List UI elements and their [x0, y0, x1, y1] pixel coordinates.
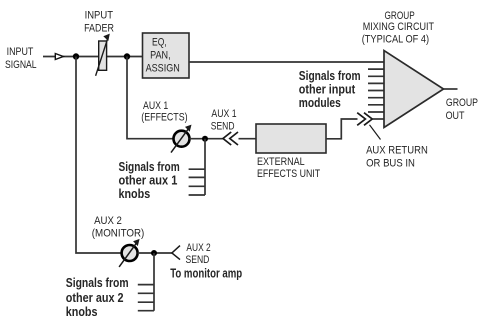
wire: effects unit to aux return [326, 119, 358, 139]
wire: EQ block to group mixer [189, 61, 384, 63]
svg-text:knobs: knobs [66, 304, 98, 319]
svg-text:INPUT: INPUT [85, 9, 114, 21]
aux1 send double chevron arrow [223, 132, 238, 145]
node: fader output junction B [124, 53, 130, 59]
wire: aux return into mixer [373, 118, 385, 120]
node: aux1 send junction [202, 136, 208, 142]
svg-text:AUX 1: AUX 1 [211, 108, 236, 120]
svg-text:EFFECTS UNIT: EFFECTS UNIT [257, 168, 321, 180]
svg-text:SEND: SEND [211, 121, 235, 133]
leader line to AUX RETURN label [370, 125, 381, 140]
svg-text:AUX 1: AUX 1 [143, 100, 168, 112]
svg-text:SEND: SEND [186, 254, 210, 266]
svg-text:AUX 2: AUX 2 [186, 242, 210, 254]
input arrowhead [55, 54, 63, 60]
svg-text:EQ,: EQ, [152, 37, 167, 49]
wire: input signal line [43, 56, 143, 58]
aux return double chevron arrow [357, 113, 372, 126]
group mixer input ticks [368, 69, 384, 112]
wire: junction B down to aux1 knob [127, 57, 174, 139]
svg-text:ASSIGN: ASSIGN [146, 63, 180, 75]
svg-text:MIXING CIRCUIT: MIXING CIRCUIT [363, 21, 435, 33]
wire: aux2 knob to send [138, 252, 172, 254]
svg-text:(MONITOR): (MONITOR) [92, 227, 145, 239]
aux2 bus comb [138, 253, 154, 311]
wire: group out [444, 88, 458, 90]
svg-text:AUX RETURN: AUX RETURN [366, 145, 428, 157]
svg-text:(TYPICAL OF 4): (TYPICAL OF 4) [362, 33, 429, 45]
aux2 pot knob [122, 245, 138, 261]
svg-text:EXTERNAL: EXTERNAL [257, 156, 305, 168]
svg-text:To monitor amp: To monitor amp [170, 266, 242, 280]
wire: junction A down to aux2 knob [76, 57, 122, 254]
svg-text:Signals from: Signals from [66, 275, 129, 290]
node: input junction A [73, 53, 79, 59]
svg-text:OUT: OUT [446, 110, 465, 122]
svg-text:INPUT: INPUT [7, 46, 34, 58]
svg-text:FADER: FADER [84, 23, 114, 35]
svg-text:PAN,: PAN, [150, 49, 171, 61]
wire: aux1 knob to send [190, 138, 223, 140]
wire: chevron to external effects unit [239, 138, 257, 140]
node: aux2 send junction [151, 250, 157, 256]
svg-text:other aux 2: other aux 2 [66, 290, 124, 305]
svg-text:(EFFECTS): (EFFECTS) [141, 112, 187, 124]
svg-text:SIGNAL: SIGNAL [5, 59, 37, 71]
aux1 pot knob [174, 131, 190, 147]
external effects unit block [256, 124, 326, 153]
aux1 bus comb [189, 139, 205, 195]
svg-text:GROUP: GROUP [446, 97, 478, 109]
svg-text:OR BUS IN: OR BUS IN [366, 157, 415, 169]
aux2 send chevron [172, 246, 180, 260]
svg-text:knobs: knobs [119, 186, 151, 201]
op-amp: group mixing circuit [384, 51, 444, 128]
svg-text:AUX 2: AUX 2 [94, 215, 122, 227]
fader (variable attenuator) [99, 41, 107, 70]
EQ/PAN/ASSIGN block [143, 33, 190, 78]
svg-text:modules: modules [299, 95, 341, 110]
